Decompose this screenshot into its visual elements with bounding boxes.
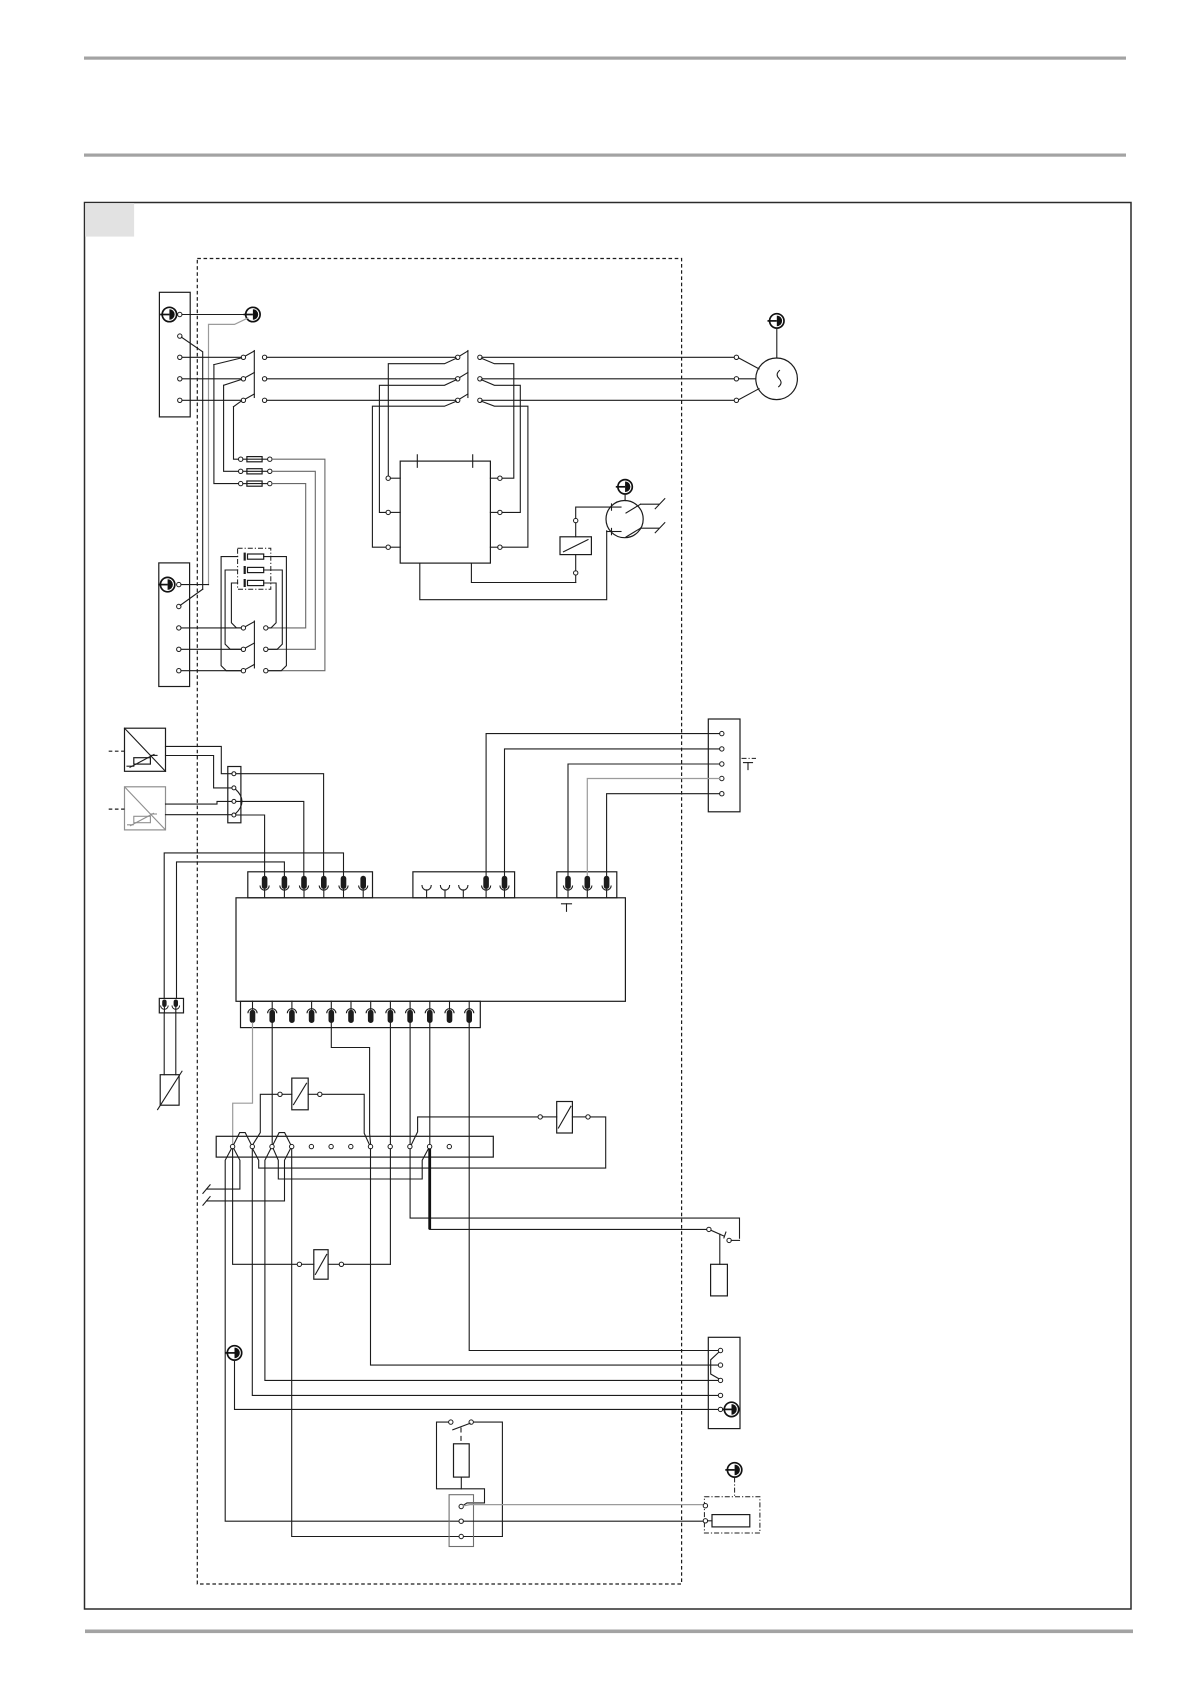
wire X20 t4 to PCB pin1 <box>236 815 265 875</box>
fuse F2 left terminal <box>239 469 243 473</box>
PCB connector J2 housing <box>413 872 515 898</box>
X10 terminal 10 <box>408 1144 412 1148</box>
wire J4 pin12 to X41 t1 <box>469 1023 718 1351</box>
contactor K1 linkage <box>253 351 255 398</box>
X10 terminal 3 <box>270 1144 274 1148</box>
transformer primary terminal 1L <box>386 476 390 480</box>
wire earth to X41 t5 <box>235 1360 719 1409</box>
J4 pin 5 <box>327 1001 336 1023</box>
J3 pin 2 <box>583 876 592 898</box>
wire B2 lead 1 <box>166 801 232 804</box>
rotary switch S1 body <box>606 500 643 537</box>
connector X41 body (lower right) <box>708 1337 740 1428</box>
crankcase heater body <box>711 1264 728 1296</box>
stub 3R to body <box>490 546 497 548</box>
J4 pin 3 <box>287 1001 296 1023</box>
wire secondary tap B <box>420 531 607 600</box>
stub K4 leads <box>282 1093 317 1095</box>
X2 terminal 2 (N) <box>177 604 181 608</box>
relay K5 left terminal <box>538 1115 542 1119</box>
wire X2 t5 to K3 <box>181 670 241 672</box>
switch S1 lower-left contact <box>607 531 621 533</box>
wire J3 pin2 to X40 t4 (grey) <box>587 779 719 876</box>
lambda probe dash-dot box <box>704 1497 760 1533</box>
X10 terminal 6 <box>329 1144 333 1148</box>
wire F5 mid right bracket <box>264 570 283 649</box>
X10 terminal 1 <box>230 1144 234 1148</box>
X1 terminal 4 (L2) <box>178 377 182 381</box>
transformer primary terminal 2L <box>386 510 390 514</box>
wire L3 row X1 to K1 <box>182 399 241 401</box>
fuse F3 right terminal <box>268 481 272 485</box>
sensor B1 diagonal <box>125 728 166 771</box>
relay K4 body <box>292 1078 308 1110</box>
connector X40 body (right) <box>708 719 740 812</box>
wire L1 row K1 to K2 <box>267 356 456 358</box>
lambda earth dash-dot lead <box>734 1477 736 1496</box>
X11 terminal 2 <box>459 1519 463 1523</box>
motor winding mark <box>777 371 781 387</box>
earth symbol in X1 <box>160 307 177 321</box>
stub K5 leads <box>542 1116 585 1118</box>
X10 terminal 2 <box>250 1144 254 1148</box>
fuse F1 right terminal <box>268 457 272 461</box>
fuse F6 element <box>245 579 264 587</box>
wire F1 tap diagonal to L3 <box>234 401 242 407</box>
motor terminal 3 <box>734 398 738 402</box>
wire X11 t1 grey to lambda heater <box>463 1505 703 1506</box>
stub K6 leads <box>302 1263 340 1265</box>
sensor B2 diagonal <box>125 787 166 830</box>
lambda terminal 2 <box>703 1519 707 1523</box>
X11 terminal 3 <box>459 1534 463 1538</box>
wire switch earth lead <box>624 494 626 500</box>
fuse F1 left terminal <box>239 457 243 461</box>
X1 terminal 5 (L3) <box>178 398 182 402</box>
fuse F2 right terminal <box>268 469 272 473</box>
contactor K2 pole 2 blade <box>460 373 468 378</box>
wire X10 t4 left leg to break mark <box>207 1149 291 1201</box>
wire F2 left riser <box>224 385 239 471</box>
X2 terminal 5 <box>177 669 181 673</box>
wire X10 t9 down to relay K6 right <box>389 1149 391 1265</box>
ignition connector X30 body <box>159 998 183 1013</box>
X10 terminal 11 <box>427 1144 431 1148</box>
ignition unit outline right <box>474 1422 503 1536</box>
main PCB board outline <box>236 898 625 1002</box>
J2 empty socket 3 <box>459 886 468 899</box>
wire igniter resistor lower lead <box>460 1477 462 1489</box>
wire J4 pin9 to X10 t10 <box>409 1023 411 1144</box>
X10 terminal 9 <box>388 1144 392 1148</box>
wire X10 t11 heavy lead <box>428 1149 431 1230</box>
J4 pin 8 <box>386 1001 395 1023</box>
switch S1 contact tick lower <box>611 528 613 534</box>
blade end tick <box>724 1232 726 1238</box>
earth symbol node PE <box>244 307 261 321</box>
wire primary 1R feed <box>481 358 514 478</box>
X41 terminal 3 <box>718 1378 722 1382</box>
wire PE drop (grey) to X2 <box>209 318 248 584</box>
relay K4 left terminal <box>278 1092 282 1096</box>
terminal strip X1 (mains, top-left) <box>159 292 190 417</box>
control fuse box dash-dot border <box>238 548 271 589</box>
stub 3L to body <box>390 546 400 548</box>
J1 pin 1 <box>260 876 269 898</box>
contactor K2 pole 2 contacts <box>456 377 460 381</box>
stub 2L to body <box>390 511 400 513</box>
J2 empty socket 1 <box>422 886 431 899</box>
earth symbol rotary switch <box>616 480 633 494</box>
wire X1 N blade down <box>182 337 203 589</box>
J4 pin 9 <box>406 1001 415 1023</box>
wire X2 PE to grey riser <box>181 584 209 586</box>
J1 pin 6 <box>359 876 368 898</box>
wire X10 t4 centre leg to X11 t3 <box>292 1149 503 1537</box>
sensor mark T at X40 <box>742 758 757 769</box>
PCB connector J3 housing <box>557 872 617 898</box>
X1 terminal 3 (L1) <box>178 355 182 359</box>
fan heater switch contact 1 <box>707 1227 711 1231</box>
X41 link bracket t1-t3 <box>711 1352 719 1378</box>
ignition switch actuator dashed <box>460 1428 462 1444</box>
X20 terminal 4 <box>232 813 236 817</box>
J4 pin 6 <box>346 1001 355 1023</box>
sensor B2 dashed stub <box>109 808 125 810</box>
wire primary 3L feed <box>372 401 456 547</box>
wire motor lead 2 <box>739 378 756 380</box>
wire L2 row K2 to motor <box>482 378 734 380</box>
switch S1 blade upper <box>626 504 641 513</box>
wire X2 t3 to K3 <box>181 627 241 629</box>
appliance boundary dashed box <box>197 259 681 1585</box>
X2 terminal 1 (PE) <box>177 582 181 586</box>
wire X10 t1 left leg to ignition transformer line <box>225 1149 459 1522</box>
wire coil box lower lead <box>575 555 577 571</box>
fan heater switch blade <box>711 1230 724 1236</box>
X20 terminal 1 <box>232 772 236 776</box>
relay K5 right terminal <box>586 1115 590 1119</box>
wire J2 pin4 to X40 t1 <box>486 734 719 876</box>
break mark lower <box>655 523 665 533</box>
contactor K3 pole 1 contacts <box>241 626 245 630</box>
wire X2 t4 to K3 <box>181 648 241 650</box>
X10 terminal 7 <box>349 1144 353 1148</box>
wire L2 row K1 to K2 <box>267 378 456 380</box>
X20 terminal 2 <box>232 786 236 790</box>
wire X20 t3 to PCB pin3 <box>236 801 304 875</box>
wire B1 lead 1 <box>166 746 232 773</box>
X41 terminal 5 <box>718 1407 722 1411</box>
lambda heater element body <box>712 1515 750 1527</box>
relay K4 right terminal <box>318 1092 322 1096</box>
sensor B2 thermistor symbol <box>127 813 157 826</box>
X40 terminal 2 <box>720 747 724 751</box>
relay K4 diagonal <box>294 1083 307 1104</box>
transformer T1 body <box>400 461 490 563</box>
X2 terminal 3 <box>177 626 181 630</box>
wire J4 pin8 to X10 t9 <box>389 1023 391 1144</box>
wire lambda t2 stub <box>708 1520 712 1522</box>
contactor K3 linkage <box>253 621 255 668</box>
diagram outer frame <box>85 203 1132 1610</box>
wire X10 t2 left leg to X41 t4 <box>252 1149 718 1396</box>
break mark 1 <box>203 1185 210 1194</box>
jumper arc X20 2-4 <box>236 789 243 814</box>
wire F3 tap diagonal to L1 <box>214 358 242 365</box>
contactor K3 pole 2 blade <box>246 643 255 648</box>
compressor motor M1 <box>756 358 798 400</box>
wire X30 down pair <box>164 1013 176 1075</box>
J3 pin 1 <box>563 876 572 898</box>
transformer tap tick 2 <box>472 455 474 468</box>
switch S1 contact tick upper <box>611 504 613 510</box>
wire J1 pin2 to spark plug connector <box>177 862 285 999</box>
sensor B1 dashed stub <box>109 750 125 752</box>
page footer rule <box>85 1630 1133 1634</box>
terminal strip X2 (controller mains) <box>159 563 190 687</box>
wire heavy lead to switch <box>430 1228 707 1230</box>
wire J3 pin1 to X40 t3 <box>568 764 720 875</box>
wire F1 left riser <box>234 407 239 460</box>
relay coil A1 diagonal <box>564 540 589 552</box>
X30 pin 1 <box>161 1000 169 1013</box>
transformer primary terminal 3R <box>498 545 502 549</box>
wire motor earth <box>776 328 778 358</box>
wire B1 lead 2 <box>166 756 232 788</box>
contactor K2 pole 1 contacts <box>456 355 460 359</box>
wire X10 t1 centre leg to relay K6 <box>233 1149 298 1265</box>
J1 pin 2 <box>280 876 289 898</box>
wire X10 t1 right leg to break mark <box>207 1149 240 1190</box>
contactor K1 pole 1 blade <box>246 351 255 356</box>
wire J4 pin1 grey to X10 t1 <box>233 1023 253 1144</box>
X1 terminal 1 (PE) <box>178 312 182 316</box>
motor terminal 2 <box>734 377 738 381</box>
fuse F3 body <box>243 481 268 486</box>
wire X2 N blade <box>180 589 202 605</box>
igniter resistor body <box>454 1444 470 1477</box>
contactor K3 pole 3 contacts <box>241 669 245 673</box>
wire L3 row K2 to motor <box>482 399 734 401</box>
wire L1 row K2 to motor <box>482 356 734 358</box>
wire secondary tap A <box>471 563 575 582</box>
fan heater switch contact 2 <box>727 1238 731 1242</box>
wire F5 mid left bracket <box>225 570 241 649</box>
contactor K1 pole 3 blade <box>246 394 255 399</box>
wire L1 row X1 to K1 <box>182 356 241 358</box>
transformer tap tick 1 <box>416 455 418 468</box>
fuse F3 left terminal <box>239 481 243 485</box>
X20 terminal 3 <box>232 799 236 803</box>
J4 pin 7 <box>366 1001 375 1023</box>
transformer primary terminal 1R <box>498 476 502 480</box>
wire L2 row X1 to K1 <box>182 378 241 380</box>
contactor K1 pole 3 contacts <box>241 398 245 402</box>
X10 terminal 12 <box>447 1144 451 1148</box>
X10 terminal 8 <box>368 1144 372 1148</box>
ignition unit outline <box>437 1422 485 1505</box>
wire X1 PE to earth point <box>182 314 246 316</box>
J2 empty socket 2 <box>440 886 449 899</box>
wire X10 t10 down to heater switch <box>410 1149 739 1238</box>
wire K6 right to X10 t9 <box>344 1263 391 1265</box>
wire primary 2R feed <box>481 380 520 513</box>
X30 pin 2 <box>172 1000 180 1013</box>
wire J4 pin2 to X10 t3 <box>271 1023 273 1144</box>
stub 2R to body <box>490 511 497 513</box>
contactor K1 pole 1 contacts <box>241 355 245 359</box>
wire switch output upper <box>641 503 659 505</box>
wire K4 left to X10 t2 <box>253 1094 278 1144</box>
J2 pin 5 <box>500 876 509 898</box>
contactor K3 pole 1 blade <box>246 622 255 627</box>
X11 terminal 1 <box>459 1504 463 1508</box>
wire coil upper lead to switch <box>576 507 621 518</box>
edge connector X20 body <box>228 767 241 823</box>
contactor K3 pole 3 blade <box>246 664 255 669</box>
wire J4 pin5 jog to X10 t8 <box>331 1023 370 1144</box>
wire X10 t3 left leg to X41 t3 <box>265 1149 718 1381</box>
wire F2 right drop <box>268 471 315 649</box>
wire J3 pin3 to X40 t5 <box>607 794 720 876</box>
wire X10 t3 right leg loop to t11 <box>273 1149 428 1179</box>
wire F2 tap diagonal to L2 <box>224 379 242 385</box>
switch S1 blade lower <box>626 528 641 537</box>
spark gap element body <box>160 1075 179 1106</box>
relay K6 right terminal <box>339 1262 343 1266</box>
PCB connector J4 housing (bottom) <box>241 1001 481 1027</box>
wire B2 lead 2 <box>166 814 232 816</box>
earth symbol motor <box>768 314 785 328</box>
X40 terminal 4 <box>720 776 724 780</box>
break mark upper <box>655 499 665 509</box>
wire motor lead 3 <box>739 389 759 400</box>
transformer primary terminal 3L <box>386 545 390 549</box>
wire J1 pin5 to spark plug connector <box>164 853 343 999</box>
lambda terminal 1 <box>703 1504 707 1508</box>
PCB connector J1 housing <box>248 872 373 898</box>
wire switch junction to heater <box>719 1234 721 1264</box>
J4 pin 1 <box>248 1001 257 1023</box>
X40 terminal 5 <box>720 792 724 796</box>
wire primary 2L feed <box>379 380 456 513</box>
relay coil A1 lower terminal <box>574 571 578 575</box>
stub 1R to body <box>490 477 497 479</box>
ignition switch contact 1 <box>449 1420 453 1424</box>
contactor K1 pole 2 contacts <box>241 377 245 381</box>
ignition switch contact 2 <box>469 1420 473 1424</box>
sensor B1 (outdoor sensor) box <box>125 728 166 771</box>
sensor mark T on PCB <box>562 904 572 912</box>
wire F4 outer left bracket <box>221 557 241 671</box>
plug tent X10 t3-t4 <box>273 1133 290 1145</box>
section number gray box <box>85 203 134 237</box>
wire motor lead 1 <box>739 358 759 369</box>
X41 terminal 2 <box>718 1363 722 1367</box>
X41 terminal 4 <box>718 1393 722 1397</box>
motor terminal 1 <box>734 355 738 359</box>
J4 pin 10 <box>425 1001 434 1023</box>
J4 pin 11 <box>445 1001 454 1023</box>
wire contact2 stub <box>731 1239 739 1241</box>
relay coil A1 box <box>560 537 591 555</box>
fuse F4 element <box>245 553 264 561</box>
earth symbol lambda <box>725 1463 742 1477</box>
fuse F5 element <box>245 566 264 574</box>
J1 pin 3 <box>299 876 308 898</box>
wire K4 right to X10 t8 <box>322 1094 369 1144</box>
transformer primary terminal 2R <box>498 510 502 514</box>
spark gap diagonal <box>158 1071 182 1109</box>
break mark 2 <box>203 1197 210 1206</box>
wire X20 t1 to PCB pin4 <box>236 774 324 876</box>
X41 terminal 1 <box>718 1348 722 1352</box>
relay K6 left terminal <box>297 1262 301 1266</box>
J3 pin 3 <box>602 876 611 898</box>
wire K5 right loop to X10 t2 leg <box>253 1117 606 1168</box>
J1 pin 4 <box>319 876 328 898</box>
fuse F1 body <box>243 457 268 462</box>
sensor B2 box (grey) <box>125 787 166 830</box>
wire primary 3R feed <box>481 401 528 547</box>
wire F1 right drop <box>268 459 325 671</box>
contactor K2 pole 3 contacts <box>456 398 460 402</box>
page header rule top <box>84 57 1126 60</box>
page header rule second <box>84 154 1126 157</box>
J2 pin 4 <box>482 876 491 898</box>
wire X10 t8 down to X41 t2 <box>371 1149 719 1365</box>
contactor K2 pole 3 blade <box>460 394 468 399</box>
earth symbol in X41 <box>722 1402 739 1416</box>
wire switch output lower <box>641 527 659 529</box>
wire K5 left to X10 t10 <box>411 1117 538 1145</box>
X10 terminal 4 <box>290 1144 294 1148</box>
J4 pin 2 <box>268 1001 277 1023</box>
earth symbol lower left <box>225 1346 242 1360</box>
plug tent X10 t1-t2 <box>234 1133 251 1145</box>
X10 terminal 5 <box>309 1144 313 1148</box>
relay K6 diagonal <box>315 1254 326 1274</box>
wire coil to box leads <box>575 523 577 537</box>
contactor K2 pole 1 blade <box>460 351 468 356</box>
X40 terminal 3 <box>720 762 724 766</box>
X40 terminal 1 <box>720 731 724 735</box>
J4 pin 4 <box>307 1001 316 1023</box>
wire J2 pin5 to X40 t2 <box>505 749 720 876</box>
terminal strip X10 body <box>216 1136 493 1157</box>
sensor B1 thermistor symbol <box>127 755 157 768</box>
X1 terminal 2 (N) <box>178 334 182 338</box>
wire coil lower lead <box>575 575 577 582</box>
wire J4 pin10 to X10 t11 <box>429 1023 431 1144</box>
contactor K2 linkage <box>467 351 469 398</box>
wire F3 left riser <box>214 365 239 484</box>
earth symbol in X2 <box>158 577 175 591</box>
wire F4 outer right bracket <box>264 557 287 671</box>
wire X11 t2 through to lambda t2 <box>463 1520 703 1522</box>
contactor K1 pole 2 blade <box>246 373 255 378</box>
fuse F2 body <box>243 469 268 474</box>
relay coil A1 upper terminal <box>574 518 578 522</box>
wire L3 row K1 to K2 <box>267 399 456 401</box>
J1 pin 5 <box>339 876 348 898</box>
J4 pin 12 <box>465 1001 474 1023</box>
wire F6 inner right bracket <box>264 583 276 628</box>
relay K6 body <box>314 1250 328 1280</box>
ignition switch blade <box>453 1423 470 1430</box>
wire F3 right drop <box>268 484 306 628</box>
